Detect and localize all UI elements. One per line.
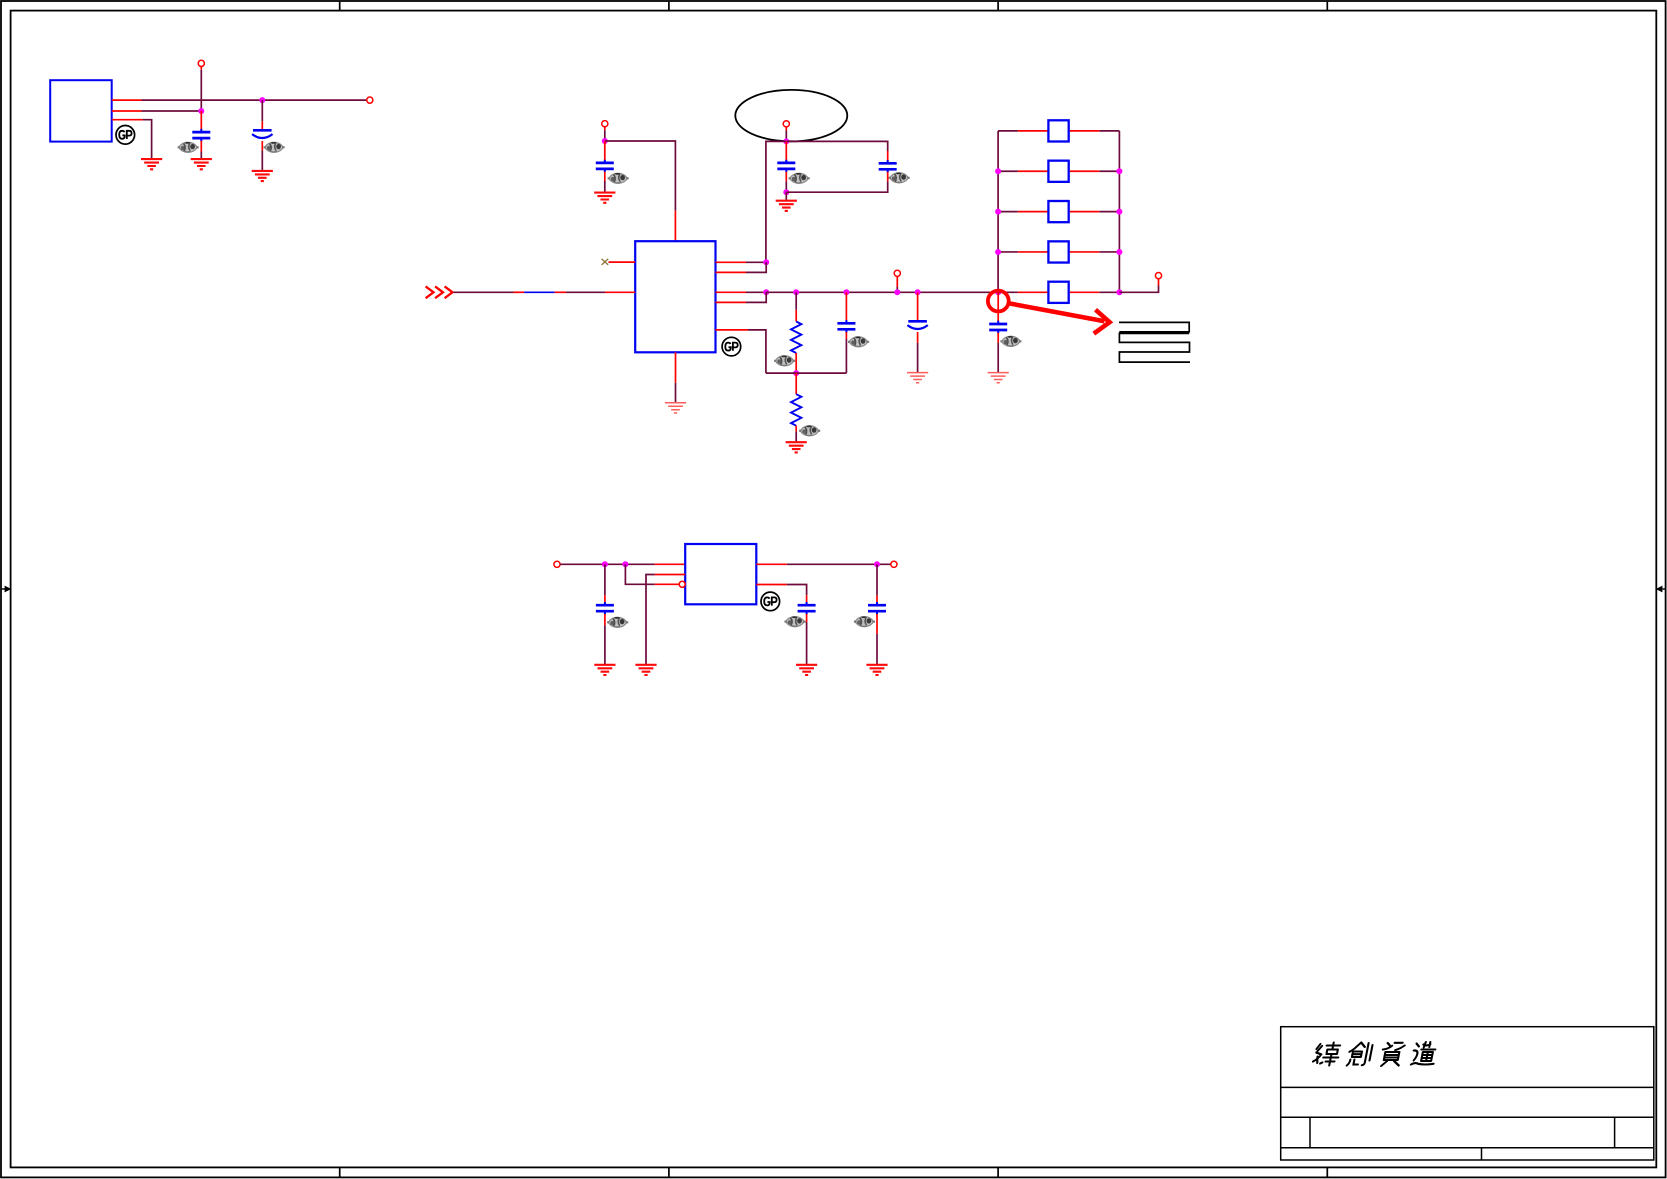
node junction R1 top (793, 289, 799, 295)
C6 DNI marker (848, 337, 869, 347)
ground below C11 (866, 665, 887, 675)
port P3 (602, 121, 608, 127)
capacitor C10 (798, 602, 816, 614)
GP marker on U2 (722, 337, 741, 356)
input net wire to U2 (mixed color segments) (454, 291, 514, 293)
title block frame (1281, 1027, 1654, 1160)
node junction C9 top (602, 561, 608, 567)
IC U2 (main) (635, 241, 715, 352)
GP marker on U3 (761, 592, 780, 611)
wire bus to C7 (917, 292, 919, 321)
capacitor C4 (777, 160, 795, 172)
resistor R1 (791, 322, 801, 354)
capacitor C5 (879, 160, 897, 172)
ladder resistor RL1 rung (998, 130, 1119, 132)
ladder rail junctions at y=171.25 (995, 168, 1001, 174)
wire node left and down to U2 pins (766, 141, 786, 262)
ground below C1 (191, 159, 212, 169)
wire P3 down (604, 127, 606, 130)
C11 DNI marker (854, 616, 875, 626)
U2 pin C stub (716, 291, 747, 293)
wire bus to C8 (997, 292, 999, 324)
port P6 (1155, 273, 1161, 279)
node junction C6 top (843, 289, 849, 295)
U3 inverted pin bubble (679, 581, 685, 587)
capacitor C1 (192, 129, 210, 141)
ground below C8 (988, 373, 1009, 383)
wire C7 to ground (917, 332, 919, 343)
node junction C3 top (602, 138, 608, 144)
wire node to C1 (200, 111, 202, 132)
wire P7 to U3 (560, 563, 655, 565)
ladder resistor RL2 rung (998, 170, 1119, 172)
ground below U3 left pin (635, 665, 656, 675)
node junction feedback tap (622, 561, 628, 567)
wire node to C2 (261, 100, 263, 121)
port P8 (circuit 2 output) (891, 561, 897, 567)
main output bus wire (766, 291, 998, 293)
node junction at C2 top (259, 97, 265, 103)
U2 no-connect pin with X (609, 261, 636, 263)
U3 lower right pin to C10 (756, 584, 787, 586)
node junction C11 top (874, 561, 880, 567)
wire C1 to ground (200, 141, 202, 152)
wire C11 to ground (876, 614, 878, 634)
ground below C2 (252, 171, 273, 181)
node junction at C1 top (198, 108, 204, 114)
ground below C3 (594, 193, 615, 203)
wire R1 to node (795, 353, 797, 373)
annotation red circle callout (988, 291, 1009, 312)
ladder resistor RL3 rung (998, 211, 1119, 213)
port P5 above bus (894, 270, 900, 276)
wire C9 branch (604, 564, 606, 595)
node junction pin C (763, 289, 769, 295)
C5 DNI marker (889, 173, 910, 183)
resistor ladder rails (998, 131, 1119, 292)
wire U1 pin2 to node (142, 110, 202, 112)
wire P5 to bus (896, 277, 898, 288)
port P2 above (198, 60, 204, 66)
capacitor C8 (989, 321, 1007, 333)
IC U3 (regulator) (685, 544, 756, 604)
ladder rail junctions at y=251.95 (995, 249, 1001, 255)
capacitor C11 (868, 602, 886, 614)
node junction C4 bottom (783, 189, 789, 195)
wire C3 to ground (604, 172, 606, 181)
wire C5 bottom back to C4 node (887, 172, 889, 181)
wire ladder to port P6 (1119, 286, 1158, 293)
port P1 right end of top-left net (367, 97, 373, 103)
C10 DNI marker (785, 616, 806, 626)
annotation ellipse (highlight) (735, 90, 847, 141)
company logo text (Wistron) (1312, 1043, 1341, 1066)
wire C4 bottom to ground (785, 192, 787, 201)
U2 pin D stub joining C (716, 301, 747, 303)
wire into C4 (785, 141, 787, 163)
wire C9 to ground (604, 614, 606, 625)
U2 pin E stub to lower rail (716, 329, 748, 331)
wire U1 pin3 to ground (143, 120, 152, 159)
wire node to U2 top pin (605, 141, 676, 211)
R1 DNI marker (774, 356, 795, 366)
U3 middle left pin to ground (655, 574, 686, 576)
C4 DNI marker (789, 173, 810, 183)
capacitor C2 (polarized) (252, 130, 272, 138)
ground below U2 (665, 403, 686, 413)
sheet zone tick marks top and bottom (340, 2, 1328, 1177)
C1 DNI marker (178, 142, 199, 152)
node junction R1 bottom (793, 370, 799, 376)
ground below C9 (594, 665, 615, 675)
left center margin arrow (2, 588, 6, 590)
node junction C8 top (995, 289, 1001, 295)
ladder rail junctions at y=211.6 (995, 209, 1001, 215)
ground below R2 (786, 442, 807, 452)
R2 DNI marker (799, 426, 820, 436)
ladder resistor RL4 rung (998, 251, 1119, 253)
input net chevrons (426, 286, 453, 298)
wire C6 to lower rail (845, 332, 847, 339)
wire U3 output (756, 563, 787, 565)
U1 pin stubs (112, 100, 143, 120)
node junction C7 top (915, 289, 921, 295)
C9 DNI marker (607, 617, 628, 627)
right center margin arrow (1661, 588, 1665, 590)
capacitor C6 (837, 320, 855, 332)
wire R2 to ground (795, 426, 797, 432)
wire bus to R1 (795, 292, 797, 310)
wire node to C3 (604, 141, 606, 163)
ground below U1 pin3 (141, 159, 162, 169)
wire bus to C6 (845, 292, 847, 320)
port P7 (circuit 2 input) (554, 561, 560, 567)
annotation red arrow (1009, 303, 1104, 321)
ladder bottom right junction (1116, 289, 1122, 295)
node junction at P4 net (783, 138, 789, 144)
wire node right to C5 (786, 141, 887, 151)
wire net VCC top-left horizontal (142, 99, 370, 101)
wire P4 down (785, 127, 787, 130)
capacitor C7 (polarized) (907, 321, 927, 329)
ladder resistor RL5 rung (998, 291, 1119, 293)
capacitor C3 (596, 160, 614, 172)
wire node to R2 (795, 373, 797, 394)
wire C10 to ground (806, 614, 808, 622)
U2 pin A stub (716, 261, 747, 263)
wire tap down to U3 bubble pin (625, 564, 654, 584)
node junction pin A (763, 259, 769, 265)
wire C2 to ground (261, 141, 263, 150)
U2 pin B stub joining A (716, 271, 747, 273)
ground below C7 (907, 373, 928, 383)
wire port P2 down (200, 67, 202, 70)
wire C5 vertical (887, 151, 889, 163)
wire C4 down (785, 172, 787, 182)
C3 DNI marker (608, 173, 629, 183)
ground below C10 (796, 665, 817, 675)
C2 DNI marker (264, 142, 285, 152)
resistor R2 (791, 394, 801, 426)
wire C11 branch (876, 564, 878, 595)
component block U1 (top-left) (50, 80, 111, 141)
capacitor C9 (596, 602, 614, 614)
GP marker on U1 (116, 126, 135, 145)
C8 DNI marker (1000, 336, 1021, 346)
U2 bottom pin to ground (675, 352, 677, 383)
annotation serpentine trace symbol (1119, 322, 1189, 331)
port P4 inside ellipse (783, 121, 789, 127)
node junction P5 (894, 289, 900, 295)
lower rail wire (766, 372, 847, 374)
ground below C4 (776, 201, 797, 211)
wire C8 to ground (997, 333, 999, 343)
